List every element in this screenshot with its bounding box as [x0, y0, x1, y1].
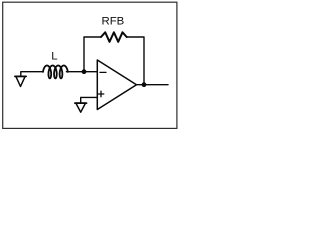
svg-text:RFB: RFB: [102, 15, 125, 27]
svg-text:L: L: [51, 51, 57, 63]
